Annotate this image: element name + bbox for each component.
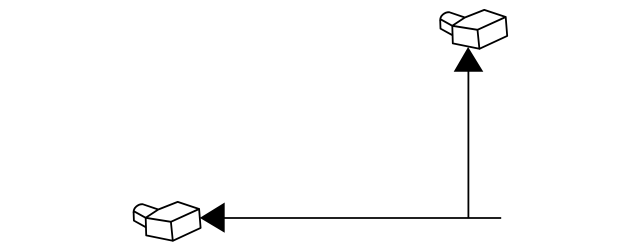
part block bottom-left [134, 202, 201, 241]
arrowhead up [454, 47, 484, 72]
horizontal leader line [223, 217, 501, 219]
vertical leader line [467, 70, 469, 218]
part block top-right [440, 10, 507, 49]
arrowhead left [200, 203, 225, 233]
